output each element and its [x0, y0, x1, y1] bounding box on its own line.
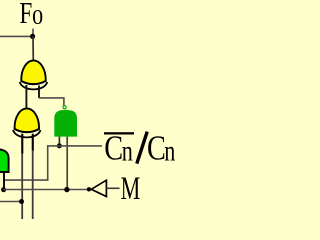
pin AND1 input left [58, 137, 60, 144]
node F0 junction dot [30, 34, 35, 39]
and-gate G2 (clipped at left edge, outlined) [0, 149, 9, 172]
pin AND1 input right (down to M wire) [66, 137, 68, 190]
svg-text:C: C [104, 129, 123, 167]
node dot on XOR2 input A line [19, 199, 24, 204]
wire F0 stub up to label [32, 29, 34, 37]
wire buffer input stub to M label [106, 187, 119, 189]
label F0 [19, 0, 43, 30]
wire F0 down to XOR1 output [32, 36, 34, 61]
buffer U1 (left-pointing triangle) [91, 180, 106, 196]
overline [104, 132, 134, 134]
pin XOR1 input A (to XOR2 output) [25, 85, 27, 110]
node junction dot (AND1 right input) [64, 187, 69, 192]
pin XOR2 input B / wire down to bottom edge [32, 134, 34, 220]
and-gate AND1 body (solid green) [54, 110, 77, 137]
wire M net horizontal [3, 189, 89, 191]
node M-net dot at left edge [1, 187, 6, 192]
pin XOR2 input A / wire down to bottom edge [21, 134, 23, 220]
svg-text:n: n [122, 133, 133, 167]
wire bottom stub to XOR2 input A [0, 201, 22, 203]
xor-gate XOR1 body [20, 60, 48, 89]
svg-text:F: F [19, 0, 32, 30]
node Cn junction dot [57, 143, 62, 148]
xor-gate XOR2 body [13, 108, 41, 137]
wire from XOR1 input B to AND1 output [39, 98, 64, 107]
xor-gate XOR1 extra input curve [20, 82, 48, 89]
label Cn-bar / Cn [104, 129, 175, 167]
svg-text:n: n [164, 133, 175, 167]
svg-text:C: C [147, 129, 166, 167]
pin XOR1 input B [38, 86, 40, 98]
wire F0 horizontal from left edge [0, 35, 33, 37]
svg-text:0: 0 [32, 5, 43, 28]
wire Cn east (to label) [59, 145, 102, 147]
slash [137, 132, 147, 164]
xor-gate XOR2 extra input curve [13, 130, 41, 137]
wire Cn west (to gate G2 pin) [4, 146, 59, 180]
node dot at buffer tip [87, 187, 91, 191]
node AND1 output ring [63, 106, 66, 109]
svg-text:M: M [121, 171, 141, 207]
pin G2 input [3, 173, 5, 188]
